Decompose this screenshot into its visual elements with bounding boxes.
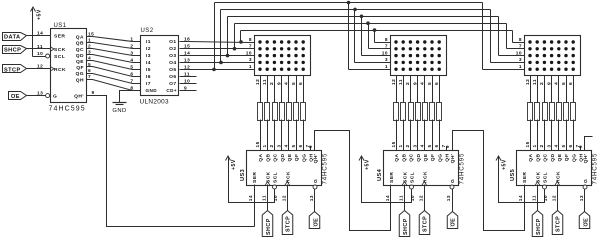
resistor R32: [265, 103, 270, 121]
svg-text:GND: GND: [146, 88, 158, 93]
svg-text:10: 10: [273, 195, 279, 201]
svg-text:15: 15: [525, 141, 531, 147]
pin label 3 (US5 top): [546, 144, 552, 147]
wire US5 RCK to STCP flag: [557, 185, 559, 211]
svg-text:CD+: CD+: [166, 88, 177, 93]
junction node bus net 5 at DS2 drop: [347, 1, 351, 5]
resistor R51: [528, 103, 533, 121]
svg-text:SHCP: SHCP: [403, 218, 409, 235]
label US4: [377, 168, 383, 181]
svg-text:13: 13: [184, 57, 190, 63]
pin label 15 (US5 top): [525, 141, 531, 147]
wire US3 SCK to SHCP flag: [267, 185, 269, 211]
pin label 10 (US4): [410, 195, 416, 201]
svg-text:6: 6: [298, 144, 304, 147]
pin label 11 (U2 right): [184, 71, 190, 77]
pin label 6 (US5 top): [568, 144, 574, 147]
pin label 12 (US5): [551, 195, 557, 201]
pin label 9 (U2 right): [184, 85, 187, 91]
shift-register US5 74HC595 body: [517, 151, 592, 186]
pin label 3 (US3 top): [276, 144, 282, 147]
wire STCP to U1 pin 12: [27, 68, 51, 70]
svg-text:2: 2: [405, 144, 411, 147]
pin label 1 (US4 top): [398, 144, 404, 147]
svg-text:+5V: +5V: [37, 9, 43, 20]
junction node on row net 1: [239, 40, 243, 44]
wire bus row net 1: [241, 30, 513, 32]
wire drop to matrix DS2 pin 1: [349, 3, 391, 70]
label 74HC595 (US3): [322, 153, 329, 185]
svg-text:9: 9: [578, 145, 584, 148]
svg-text:5: 5: [130, 64, 133, 70]
svg-text:1: 1: [532, 144, 538, 147]
wire U1 QF to U2 pin 6: [87, 67, 141, 77]
svg-text:OE: OE: [11, 94, 20, 100]
wire drop to matrix DS3 pin 1: [483, 3, 525, 70]
svg-text:5: 5: [427, 144, 433, 147]
pin label 15 (U2 right): [184, 43, 190, 49]
pin label 10: [37, 51, 43, 57]
svg-text:13: 13: [37, 91, 43, 97]
svg-text:3: 3: [546, 144, 552, 147]
wire U1 QH' pin 9 down to US3 SER rail: [87, 96, 255, 227]
svg-text:13: 13: [579, 195, 585, 201]
node bubble US5 G pin 13: [583, 185, 587, 189]
svg-text:4: 4: [88, 56, 91, 62]
svg-text:SER: SER: [252, 172, 258, 183]
svg-text:SHCP: SHCP: [266, 218, 272, 235]
svg-text:SCL: SCL: [543, 172, 549, 183]
wire bus row net 5: [215, 2, 483, 4]
resistor R37: [301, 103, 306, 121]
svg-text:5: 5: [291, 144, 297, 147]
pin label 6 (US4 top): [434, 144, 440, 147]
power +5V arrow (US5): [496, 156, 508, 170]
svg-text:QH': QH': [583, 154, 589, 164]
wire US5 SER cascade-in: [524, 185, 526, 231]
svg-text:6: 6: [434, 144, 440, 147]
pin label 11 (US3): [262, 195, 268, 201]
svg-text:STCP: STCP: [4, 67, 21, 73]
svg-text:1: 1: [130, 36, 133, 42]
svg-text:3: 3: [412, 144, 418, 147]
wire resistor R43 to US4 QC: [410, 120, 412, 151]
label ULN2003 (U2): [140, 98, 170, 105]
svg-text:1: 1: [398, 144, 404, 147]
svg-text:STCP: STCP: [286, 216, 292, 232]
svg-text:RCK: RCK: [285, 171, 291, 183]
svg-text:3: 3: [276, 144, 282, 147]
svg-text:O1: O1: [169, 39, 176, 45]
wire riser row net 4 to bus: [220, 10, 222, 63]
pin label 5 (US4 top): [427, 144, 433, 147]
svg-text:QD: QD: [416, 153, 422, 161]
wire matrix col 3 to resistor R43: [410, 76, 412, 103]
label US3: [240, 169, 246, 181]
svg-text:2: 2: [269, 144, 275, 147]
pin label 10 (US5): [543, 195, 549, 201]
wire matrix col 7 to resistor R57: [573, 76, 575, 103]
svg-text:QD: QD: [76, 53, 84, 59]
wire U1 QD to U2 pin 4: [87, 55, 141, 63]
svg-text:I1: I1: [146, 39, 151, 45]
svg-text:14: 14: [184, 50, 190, 56]
wire SHCP to U1 pin 11: [27, 48, 51, 50]
svg-text:I2: I2: [146, 46, 151, 52]
svg-text:2: 2: [130, 43, 133, 49]
pin label 7 (US3 top): [305, 144, 311, 147]
pin label 4 (U1 right): [88, 56, 91, 62]
svg-text:10: 10: [543, 195, 549, 201]
pin label 2 (U1 right): [88, 44, 91, 50]
svg-text:10: 10: [382, 50, 388, 56]
resistor R53: [543, 103, 548, 121]
svg-text:3: 3: [385, 57, 388, 63]
svg-text:I7: I7: [146, 81, 151, 87]
svg-text:O5: O5: [169, 67, 176, 73]
wire matrix col 3 to resistor R53: [544, 76, 546, 103]
svg-text:12: 12: [184, 64, 190, 70]
svg-text:QH: QH: [445, 153, 451, 161]
svg-text:QF: QF: [294, 154, 300, 162]
stub U2 pin 11: [180, 76, 197, 78]
junction node bus net 2 at DS2 drop: [366, 21, 370, 25]
wire resistor R46 to US4 QF: [432, 120, 434, 151]
pin label 11 (US4): [399, 195, 405, 201]
resistor R55: [557, 103, 562, 121]
svg-text:13: 13: [309, 195, 315, 201]
svg-text:QH': QH': [450, 154, 456, 164]
pin labels columns DS1: [255, 79, 304, 85]
label 74HC595 (US5): [592, 153, 599, 185]
svg-text:QG: QG: [571, 154, 577, 163]
svg-text:74HC595: 74HC595: [459, 153, 466, 185]
wire bus row net 2: [235, 23, 507, 25]
svg-text:8: 8: [249, 37, 252, 43]
svg-text:O2: O2: [169, 46, 176, 52]
wire drop to matrix DS2 pin 3: [355, 10, 391, 63]
stub U2 pin 10: [180, 83, 197, 85]
stub US5 QH' pin 9: [585, 137, 593, 151]
svg-text:1: 1: [88, 37, 91, 43]
pin label 12: [37, 64, 43, 70]
label US5: [510, 169, 516, 181]
pin label 3 (US4 top): [412, 144, 418, 147]
svg-text:QA: QA: [258, 153, 264, 161]
svg-text:5: 5: [561, 82, 567, 85]
svg-text:SCK: SCK: [536, 171, 542, 183]
wire resistor R41 to US4 QA: [396, 120, 398, 151]
pin label 12 (U2 right): [184, 64, 190, 70]
led-matrix DS2 5x7 body: [391, 36, 447, 76]
pin label 13 (US3): [309, 195, 315, 201]
svg-text:3: 3: [519, 57, 522, 63]
svg-text:13: 13: [446, 195, 452, 201]
svg-text:QF: QF: [76, 65, 84, 71]
wire U1 QE to U2 pin 5: [87, 61, 141, 70]
svg-text:US4: US4: [377, 168, 383, 181]
svg-text:QE: QE: [423, 153, 429, 161]
wire U1 QC to U2 pin 3: [87, 49, 141, 56]
svg-text:14: 14: [248, 195, 254, 201]
wire resistor R56 to US5 QF: [566, 120, 568, 151]
wire matrix col 5 to resistor R55: [558, 76, 560, 103]
pin label 8 (U2 left): [130, 85, 133, 91]
pin label 12 (US3): [281, 195, 287, 201]
pin label 9 (US4 QH'): [445, 145, 451, 148]
wire drop to matrix DS2 pin 8: [375, 31, 391, 43]
pin label 7 (U1 right): [88, 74, 91, 80]
wire drop to matrix DS2 pin 7: [369, 24, 391, 49]
pin label 1 (US5 top): [532, 144, 538, 147]
pin label 13 (US4): [446, 195, 452, 201]
wire US4 RCK to STCP flag: [424, 185, 426, 211]
svg-text:QE: QE: [557, 153, 563, 161]
svg-text:QC: QC: [273, 153, 279, 161]
resistor R47: [437, 103, 442, 121]
wire resistor R31 to US3 QA: [260, 120, 262, 151]
svg-text:O4: O4: [169, 60, 176, 66]
power +5V arrow (top left): [31, 7, 43, 57]
svg-text:1: 1: [519, 64, 522, 70]
pin label 9 (US3 QH'): [308, 145, 314, 148]
pin label 10 (US3): [273, 195, 279, 201]
svg-text:SHCP: SHCP: [4, 48, 21, 54]
svg-text:14: 14: [37, 31, 43, 37]
svg-text:7: 7: [385, 44, 388, 50]
wire resistor R53 to US5 QC: [544, 120, 546, 151]
resistor R31: [258, 103, 263, 121]
svg-text:11: 11: [399, 195, 405, 201]
svg-text:7: 7: [249, 44, 252, 50]
svg-text:QA: QA: [76, 35, 84, 41]
svg-text:3: 3: [249, 57, 252, 63]
svg-text:QE: QE: [287, 153, 293, 161]
wire US5 SCK to SHCP flag: [537, 185, 539, 211]
pin label 4 (US3 top): [284, 144, 290, 147]
pin label 5 (U1 right): [88, 62, 91, 68]
flag SHCP input: [3, 46, 27, 54]
pin label 11 (US5): [532, 195, 538, 201]
svg-text:10: 10: [184, 78, 190, 84]
resistor R43: [409, 103, 414, 121]
flag STCP input: [3, 65, 27, 74]
wire matrix col 7 to resistor R37: [303, 76, 305, 103]
pin label 14 (US3): [248, 195, 254, 201]
resistor R35: [287, 103, 292, 121]
wire US3 RCK to STCP flag: [287, 185, 289, 211]
svg-text:QC: QC: [76, 47, 84, 53]
wire bus row net 3: [228, 16, 499, 18]
svg-text:DATA: DATA: [4, 34, 21, 40]
pin label 4 (US5 top): [554, 144, 560, 147]
pin label 6 (U1 right): [88, 68, 91, 74]
wire matrix col 4 to resistor R34: [281, 76, 283, 103]
driver-chip U2 ULN2003 body: [141, 36, 179, 96]
led-matrix DS3 5x7 body: [525, 36, 581, 76]
svg-text:G: G: [583, 179, 589, 183]
pin label 14 (US4): [385, 195, 391, 201]
svg-text:QD: QD: [550, 153, 556, 161]
wire drop to matrix DS3 pin 10: [499, 17, 525, 56]
node bubble US3 G pin 13: [313, 185, 317, 189]
svg-text:+5V: +5V: [231, 159, 237, 170]
label 74HC595 (U1): [49, 105, 86, 112]
svg-text:O7: O7: [169, 81, 176, 87]
svg-text:QG: QG: [301, 154, 307, 163]
svg-text:OE: OE: [450, 218, 456, 227]
svg-text:QH': QH': [74, 94, 84, 100]
wire resistor R47 to US4 QG: [439, 120, 441, 151]
svg-text:74HC595: 74HC595: [49, 105, 86, 112]
wire matrix col 7 to resistor R47: [439, 76, 441, 103]
svg-text:9: 9: [445, 145, 451, 148]
wire U2 O1 to matrix DS1 pin 8: [180, 42, 255, 43]
wire matrix col 2 to resistor R42: [403, 76, 405, 103]
pin label 5 (U2 left): [130, 64, 133, 70]
node bubble US5 SCL pin 10: [543, 185, 547, 189]
svg-text:QG: QG: [437, 154, 443, 163]
wire DATA to U1 pin 14: [27, 35, 51, 37]
svg-text:10: 10: [516, 50, 522, 56]
pin labels columns DS2: [391, 79, 440, 85]
svg-text:QB: QB: [76, 41, 84, 47]
flag DATA input: [3, 33, 27, 41]
svg-text:12: 12: [37, 64, 43, 70]
wire drop to matrix DS2 pin 10: [362, 17, 391, 56]
wire resistor R45 to US4 QE: [424, 120, 426, 151]
pin labels rows DS1: [246, 37, 252, 70]
wire U2 O5 to matrix DS1 pin 1: [180, 69, 255, 71]
svg-text:12: 12: [255, 79, 261, 85]
resistor R52: [535, 103, 540, 121]
op-chip U1 74HC595 body: [50, 29, 87, 103]
svg-text:12: 12: [418, 195, 424, 201]
svg-text:11: 11: [262, 195, 268, 201]
label US2: [141, 28, 154, 34]
label 74HC595 (US4): [459, 153, 466, 185]
pin label 14 (US5): [518, 195, 524, 201]
wire matrix col 2 to resistor R52: [537, 76, 539, 103]
svg-text:11: 11: [37, 44, 43, 50]
resistor R42: [401, 103, 406, 121]
svg-text:10: 10: [410, 195, 416, 201]
svg-text:US1: US1: [54, 23, 67, 29]
pin label 1 (U2 left): [130, 36, 133, 42]
svg-text:SCL: SCL: [273, 172, 279, 183]
pin label 15 (US4 top): [391, 141, 397, 147]
svg-text:1: 1: [385, 64, 388, 70]
svg-text:QD: QD: [280, 153, 286, 161]
wire riser row net 2 to bus: [234, 24, 236, 49]
pin label 9 (U1 QH'): [92, 90, 95, 96]
svg-text:SHCP: SHCP: [536, 218, 542, 235]
flag OE (US4): [447, 212, 458, 229]
svg-text:US3: US3: [240, 169, 246, 181]
svg-text:7: 7: [519, 44, 522, 50]
svg-text:+5V: +5V: [502, 159, 508, 170]
led-matrix DS1 5x7 body: [255, 36, 311, 76]
pin label 13 (US5): [579, 195, 585, 201]
svg-text:6: 6: [568, 144, 574, 147]
wire riser row net 1 to bus: [240, 31, 242, 42]
svg-text:15: 15: [88, 31, 94, 37]
stub U2 pin 9: [180, 90, 197, 92]
svg-text:QF: QF: [564, 154, 570, 162]
wire matrix col 5 to resistor R45: [424, 76, 426, 103]
svg-text:RCK: RCK: [54, 67, 66, 73]
shift-register US4 74HC595 body: [384, 151, 459, 186]
junction node on row net 3: [226, 54, 230, 58]
junction node bus net 4 at DS2 drop: [353, 8, 357, 12]
resistor R56: [564, 103, 569, 121]
svg-text:4: 4: [554, 144, 560, 147]
wire US3 G to OE flag: [314, 189, 316, 212]
pin label 2 (US4 top): [405, 144, 411, 147]
svg-text:QC: QC: [543, 153, 549, 161]
svg-text:15: 15: [391, 141, 397, 147]
pin label 4 (US4 top): [420, 144, 426, 147]
svg-text:12: 12: [551, 195, 557, 201]
node bubble US4 SCL pin 10: [410, 185, 414, 189]
junction node on row net 2: [233, 47, 237, 51]
svg-text:OE: OE: [583, 218, 589, 227]
wire matrix col 5 to resistor R35: [288, 76, 290, 103]
ground symbol: [112, 103, 126, 115]
svg-text:16: 16: [184, 36, 190, 42]
svg-text:I3: I3: [146, 53, 151, 59]
pin label 13: [37, 91, 43, 97]
flag OE input: [9, 92, 27, 101]
svg-text:US5: US5: [510, 169, 516, 181]
svg-text:GND: GND: [112, 108, 126, 114]
pin label 5 (US5 top): [561, 144, 567, 147]
pin labels rows DS3: [516, 37, 522, 70]
pin label 12 (US4): [418, 195, 424, 201]
svg-text:QA: QA: [394, 153, 400, 161]
flag SHCP (US4): [399, 211, 410, 237]
wire U1 QH to U2 pin 8: [87, 80, 141, 91]
pin label 6 (US3 top): [298, 144, 304, 147]
wire matrix col 6 to resistor R56: [566, 76, 568, 103]
svg-text:STCP: STCP: [556, 216, 562, 232]
svg-text:8: 8: [519, 37, 522, 43]
flag STCP (US5): [552, 211, 563, 235]
power +5V arrow (US4): [359, 156, 371, 170]
node bubble U1 pin 13: [46, 94, 50, 98]
wire resistor R42 to US4 QB: [403, 120, 405, 151]
resistor R57: [571, 103, 576, 121]
node bubble US3 SCL pin 10: [273, 185, 277, 189]
wire drop to matrix DS3 pin 8: [513, 31, 525, 43]
wire US5 G to OE flag: [584, 189, 586, 212]
pin label 5 (US3 top): [291, 144, 297, 147]
wire matrix col 2 to resistor R32: [267, 76, 269, 103]
shift-register US3 74HC595 body: [247, 151, 322, 186]
wire +5V to U1 SCL pin 10: [33, 56, 46, 58]
svg-text:2: 2: [539, 144, 545, 147]
stub US5 QH pin 7: [580, 147, 582, 151]
wire matrix col 4 to resistor R44: [417, 76, 419, 103]
svg-text:12: 12: [391, 79, 397, 85]
resistor R41: [394, 103, 399, 121]
pin label 6 (U2 left): [130, 71, 133, 77]
pin label 15 (US3 top): [255, 141, 261, 147]
wire US5 SCL to +5V: [499, 157, 545, 203]
svg-text:O3: O3: [169, 53, 176, 59]
pin label 15 (U1 right): [88, 31, 94, 37]
svg-text:11: 11: [532, 195, 538, 201]
